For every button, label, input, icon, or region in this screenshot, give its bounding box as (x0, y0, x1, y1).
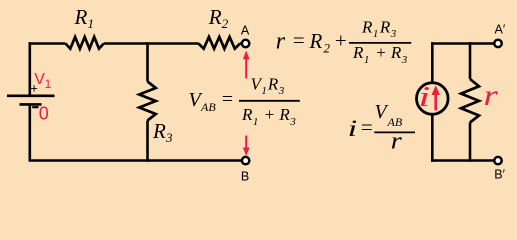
svg-text:r: r (484, 79, 499, 112)
battery V1 top plate (+, long) (7, 94, 55, 97)
wire: middle branch upper (top wire down to R3) (146, 42, 149, 81)
battery - sign (32, 106, 38, 108)
wire: circuit2 left vertical lower (431, 114, 434, 162)
wire: circuit2 top wire (432, 42, 494, 45)
svg-text:B: B (241, 170, 249, 184)
svg-text:AB: AB (200, 100, 216, 114)
svg-text:=: = (292, 28, 306, 52)
svg-text:AB: AB (387, 115, 403, 129)
svg-text:i: i (418, 81, 430, 112)
wire: circuit1 left vertical lower (battery to bottom) (28, 105, 31, 161)
wire: circuit1 top middle segment R1 to R2 (104, 42, 199, 45)
node A' terminal (494, 23, 506, 47)
svg-text:1: 1 (45, 77, 52, 91)
svg-text:R: R (309, 29, 323, 53)
wire: middle branch lower (R3 to bottom wire) (146, 121, 149, 162)
current source i (417, 81, 449, 114)
node A terminal (241, 23, 250, 47)
resistor R1 (66, 5, 104, 49)
battery V1 bottom plate (-, short) (20, 103, 42, 106)
resistor R2 (199, 5, 241, 49)
svg-text:A: A (241, 23, 250, 37)
wire: circuit2 left vertical upper (431, 42, 434, 83)
resistor r (461, 79, 499, 123)
svg-text:1: 1 (88, 16, 95, 31)
svg-text:r: r (276, 29, 286, 55)
wire: circuit2 right branch lower (469, 123, 472, 162)
svg-text:V: V (34, 71, 45, 88)
svg-text:i: i (348, 116, 358, 141)
svg-text:B′: B′ (494, 167, 505, 181)
equation VAB = V1R3/(R1+R3) (189, 75, 300, 129)
svg-text:2: 2 (324, 41, 331, 56)
svg-text:r: r (391, 128, 403, 154)
svg-text:R: R (152, 119, 166, 143)
wire: circuit1 bottom wire (29, 159, 242, 162)
wire: circuit1 top-left segment from battery to R1 (29, 42, 66, 45)
svg-text:R: R (208, 5, 222, 29)
svg-text:R: R (74, 5, 88, 29)
equation i = VAB/r (348, 101, 415, 154)
svg-text:0: 0 (39, 104, 49, 124)
wire: R2 to node A (240, 42, 242, 45)
svg-text:2: 2 (222, 16, 229, 31)
node B' terminal (494, 157, 505, 181)
svg-text:=: = (360, 115, 374, 139)
red arrow up toward node A (243, 51, 250, 79)
resistor R3 (139, 82, 173, 146)
svg-text:A′: A′ (495, 23, 506, 37)
svg-text:3: 3 (165, 130, 173, 145)
wire: circuit1 left vertical upper (to battery) (28, 42, 31, 95)
red arrow down toward node B (243, 136, 250, 157)
equation r = R2 + R1R3/(R1+R3) (276, 17, 411, 66)
svg-text:=: = (221, 89, 235, 111)
label V1 (red) (34, 71, 51, 91)
wire: circuit2 bottom wire (431, 159, 494, 162)
wire: circuit2 right branch upper (469, 42, 472, 79)
node B terminal (241, 157, 249, 184)
svg-text:+: + (334, 29, 348, 53)
